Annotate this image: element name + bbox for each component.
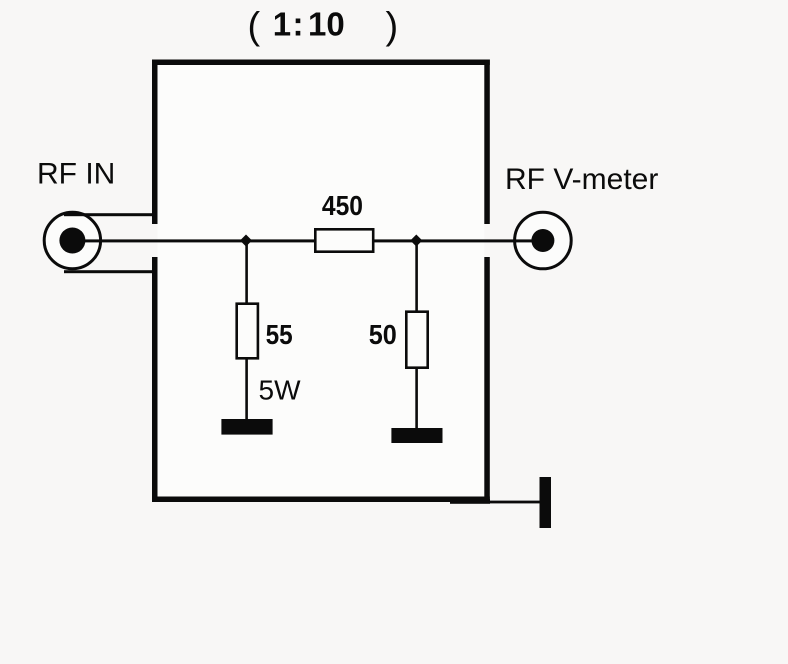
svg-text:50: 50: [369, 319, 397, 351]
svg-text:(: (: [248, 5, 261, 47]
svg-text:RF IN: RF IN: [37, 158, 115, 191]
resistor R3 50 body: [406, 312, 427, 368]
enclosure box left edge lower segment: [152, 257, 158, 502]
svg-text:RF V-meter: RF V-meter: [505, 163, 658, 196]
connector J1 RF IN: shield line bottom: [64, 270, 153, 273]
svg-text:): ): [386, 5, 399, 47]
resistor R1 450 body: [315, 229, 373, 251]
connector J2 RF V-meter: outer ring: [515, 212, 572, 269]
connector J1 RF IN: shield line top: [64, 213, 153, 216]
title ratio label ( 1 : 10 ): [248, 5, 399, 47]
svg-text:5W: 5W: [259, 375, 302, 406]
wire: chassis ground lead: [490, 501, 540, 504]
connector J1 RF IN: center pin dot: [59, 228, 85, 254]
enclosure box right edge lower segment: [484, 257, 490, 502]
chassis ground bar: [540, 477, 552, 528]
wire: vertical drop from node A to ground: [245, 241, 248, 420]
enclosure box right edge upper segment: [484, 60, 490, 225]
enclosure box interior: [158, 65, 485, 497]
connector J2 RF V-meter: center pin dot: [531, 229, 554, 252]
junction node A: [240, 235, 252, 247]
junction node B: [410, 235, 422, 247]
ground symbol 1 (under R2): [221, 419, 272, 435]
enclosure box bottom edge: [152, 497, 490, 503]
svg-text::: :: [293, 6, 304, 43]
ground symbol 2 (under R3): [391, 428, 442, 443]
enclosure box top edge: [152, 60, 490, 66]
resistor R2 55 body: [237, 304, 258, 359]
enclosure box left edge upper segment: [152, 60, 158, 225]
wire: main horizontal signal wire: [72, 239, 543, 242]
wire: chassis ground stub on bottom edge: [450, 499, 490, 504]
svg-text:1: 1: [273, 6, 291, 43]
svg-text:55: 55: [266, 318, 293, 350]
svg-text:10: 10: [308, 6, 345, 43]
connector J1 RF IN: outer ring: [44, 212, 100, 268]
wire: vertical drop from node B to ground: [415, 241, 418, 429]
svg-text:450: 450: [322, 190, 363, 222]
